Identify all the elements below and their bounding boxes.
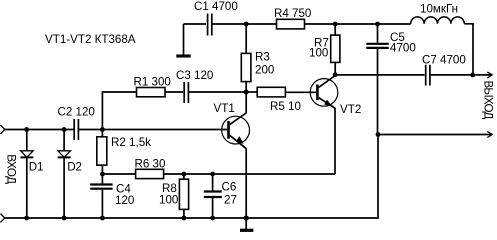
node input R1 R2 — [100, 127, 105, 132]
wire output line to C7 — [335, 74, 424, 76]
diode D1 — [20, 130, 33, 219]
resistor R8 — [179, 174, 188, 218]
svg-text:100: 100 — [309, 47, 328, 60]
resistor R6 — [136, 169, 164, 178]
capacitor C3 — [184, 82, 188, 103]
rail node D2 — [62, 216, 67, 221]
svg-text:100: 100 — [159, 194, 178, 207]
svg-text:C7 4700: C7 4700 — [422, 54, 466, 67]
rail node R8 — [182, 216, 187, 221]
capacitor C5 — [366, 24, 388, 134]
svg-text:R2 1,5k: R2 1,5k — [111, 136, 151, 149]
node R3 bottom — [244, 90, 249, 95]
wire R1 to C3 — [165, 91, 183, 93]
node top R7 — [333, 22, 338, 27]
feedback wire R1 C3 — [102, 92, 136, 130]
output arrow top — [473, 72, 493, 78]
transistor VT2 — [310, 76, 338, 109]
svg-text:ВЫХОД: ВЫХОД — [482, 81, 495, 120]
resistor R7 — [331, 24, 340, 75]
node R2 bottom — [100, 172, 105, 177]
capacitor C7 — [426, 65, 430, 86]
wire C1 left stub — [183, 24, 185, 55]
inductor L1 10mkGn — [411, 17, 465, 24]
node output low — [376, 132, 381, 137]
resistor R1 — [137, 88, 166, 97]
svg-text:200: 200 — [255, 64, 274, 77]
VT2 collector stub — [334, 75, 336, 76]
diode D2 — [58, 130, 71, 219]
bottom terminal chevron — [0, 214, 5, 223]
svg-text:R4 750: R4 750 — [274, 7, 311, 20]
VT2 emitter wire down and left — [334, 108, 336, 174]
resistor R4 — [277, 19, 305, 29]
svg-text:VT1: VT1 — [214, 102, 235, 115]
svg-text:R1 300: R1 300 — [134, 76, 171, 89]
resistor R2 — [97, 130, 107, 175]
rail node C6 — [210, 216, 215, 221]
node C6 top — [210, 172, 215, 177]
svg-text:D2: D2 — [67, 161, 82, 174]
output arrow bottom — [378, 132, 492, 138]
svg-text:C2 120: C2 120 — [58, 106, 95, 119]
wire top rail C1 to R4 — [184, 23, 207, 25]
rail node emitter ground — [244, 215, 249, 220]
VT1 collector wire — [245, 92, 247, 113]
node top C5 — [375, 22, 380, 27]
wire R6 right along mid line — [164, 173, 335, 175]
rail node D1 — [24, 216, 29, 221]
resistor R3 — [241, 24, 251, 92]
wire node to R5 — [246, 91, 257, 93]
svg-text:VT1-VT2 КТ368А: VT1-VT2 КТ368А — [45, 33, 136, 46]
ground symbol — [240, 218, 253, 230]
node D2 top — [62, 127, 67, 132]
node D1 top — [24, 127, 29, 132]
capacitor C4 — [90, 174, 112, 218]
node top R3 — [244, 22, 249, 27]
svg-text:VT2: VT2 — [340, 103, 361, 116]
capacitor C1 — [208, 14, 212, 36]
svg-text:C3 120: C3 120 — [176, 69, 213, 82]
mid line R6 to VT2 emitter — [102, 173, 135, 175]
capacitor C2 — [74, 119, 78, 140]
transistor VT1 — [222, 113, 250, 149]
svg-text:R3: R3 — [255, 51, 270, 64]
svg-text:R6 30: R6 30 — [135, 158, 166, 171]
svg-text:D1: D1 — [29, 161, 44, 174]
svg-text:4700: 4700 — [390, 42, 416, 55]
svg-text:27: 27 — [224, 194, 237, 207]
resistor R5 — [257, 87, 285, 97]
svg-text:C1 4700: C1 4700 — [194, 0, 238, 13]
svg-text:R5 10: R5 10 — [270, 100, 301, 113]
svg-text:120: 120 — [115, 194, 134, 207]
wire R4 to inductor — [305, 23, 411, 25]
wire R5 to VT2 base — [285, 91, 316, 93]
capacitor C6 — [204, 174, 222, 218]
wire C1 to R4 — [212, 23, 277, 25]
rail node C4 — [100, 216, 105, 221]
bottom ground rail — [5, 135, 378, 219]
wire inductor to corner and down — [464, 24, 473, 75]
wire C7 to output node — [430, 74, 473, 76]
ground bar at C1 — [176, 54, 190, 57]
node output — [470, 73, 475, 78]
svg-text:10мкГн: 10мкГн — [420, 3, 458, 16]
VT1 emitter wire down — [245, 148, 247, 218]
input line — [5, 129, 228, 131]
svg-text:ВХОД: ВХОД — [5, 154, 18, 184]
wire C3 to node — [189, 91, 247, 93]
input terminal chevron top — [0, 125, 5, 134]
node VT2 collector — [333, 72, 338, 77]
svg-text:C6: C6 — [222, 181, 237, 194]
node R8 top — [182, 172, 187, 177]
